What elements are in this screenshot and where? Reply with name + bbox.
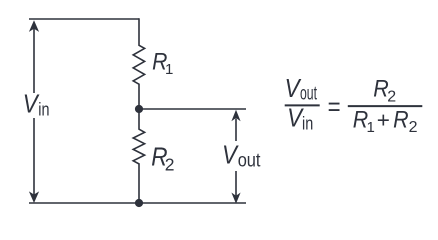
svg-text:2: 2 — [165, 154, 175, 174]
svg-text:2: 2 — [409, 119, 418, 136]
svg-text:out: out — [238, 150, 261, 171]
svg-text:1: 1 — [165, 61, 173, 78]
svg-text:=: = — [328, 91, 341, 121]
svg-text:1: 1 — [367, 119, 375, 136]
svg-text:in: in — [302, 113, 313, 133]
svg-text:out: out — [300, 84, 317, 105]
svg-text:2: 2 — [387, 88, 396, 105]
svg-text:R: R — [393, 106, 409, 133]
svg-text:in: in — [38, 100, 49, 120]
svg-text:V: V — [222, 139, 239, 169]
svg-text:+: + — [377, 107, 390, 132]
